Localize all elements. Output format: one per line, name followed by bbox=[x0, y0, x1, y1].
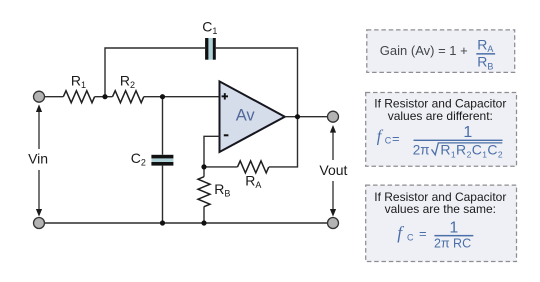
svg-text:1: 1 bbox=[449, 219, 458, 236]
formula box: gain equation bbox=[367, 30, 515, 73]
resistor RA bbox=[238, 161, 269, 173]
wire: inverting input to feedback node bbox=[204, 136, 220, 167]
pin: non-inverting input (+) bbox=[222, 95, 228, 97]
wire: from R2 output node down to C2 and on to ground rail bbox=[162, 97, 164, 223]
wire: bottom ground rail bbox=[45, 222, 328, 224]
node after R2 bbox=[160, 94, 165, 99]
svg-text:=: = bbox=[419, 226, 427, 241]
svg-text:Av: Av bbox=[236, 107, 256, 125]
svg-text:Gain (Av) = 1 +: Gain (Av) = 1 + bbox=[380, 43, 468, 58]
wire: feedback node down to RB bbox=[203, 167, 205, 223]
Vout measurement arrow bbox=[330, 125, 336, 217]
svg-text:Vin: Vin bbox=[28, 150, 48, 166]
svg-text:values are different:: values are different: bbox=[388, 109, 493, 123]
resistor R1 bbox=[63, 91, 94, 103]
formula box: cutoff frequency, same values bbox=[366, 185, 517, 261]
Vin measurement arrow bbox=[36, 104, 42, 216]
svg-text:1: 1 bbox=[463, 124, 472, 141]
resistor RB bbox=[198, 177, 210, 207]
terminal Vin bottom bbox=[34, 218, 45, 229]
svg-text:2π RC: 2π RC bbox=[434, 237, 471, 251]
svg-text:R1R2C1C2: R1R2C1C2 bbox=[440, 142, 503, 160]
terminal Vout bottom bbox=[328, 218, 339, 229]
node between R1 and R2 bbox=[102, 94, 107, 99]
wire: input top wire from Vin terminal to op-amp + input bbox=[45, 96, 219, 98]
wire: feedback from node between R1/R2 up and across through C1 to output node bbox=[105, 48, 298, 117]
terminal Vout top bbox=[328, 111, 339, 122]
svg-text:=: = bbox=[392, 131, 400, 146]
node at inverting feedback junction bbox=[201, 164, 206, 169]
capacitor C2 bbox=[151, 155, 173, 166]
capacitor C1 bbox=[205, 38, 216, 60]
formula box: cutoff frequency, different values bbox=[366, 93, 517, 167]
wire: op-amp output to Vout terminal bbox=[285, 116, 328, 118]
node at op-amp output bbox=[295, 114, 300, 119]
resistor R2 bbox=[113, 91, 144, 103]
wire: feedback node through RA to output bbox=[204, 117, 298, 167]
pin: inverting input (-) bbox=[224, 134, 229, 136]
node RB to ground rail bbox=[201, 220, 206, 225]
svg-text:2π: 2π bbox=[413, 143, 430, 158]
terminal Vin top bbox=[34, 91, 45, 102]
svg-text:values are the same:: values are the same: bbox=[385, 202, 496, 216]
svg-text:C: C bbox=[407, 232, 414, 242]
op-amp U1 (Av) bbox=[220, 81, 285, 152]
svg-text:C: C bbox=[385, 136, 392, 146]
svg-text:Vout: Vout bbox=[319, 162, 347, 178]
node C2 to ground rail bbox=[160, 220, 165, 225]
